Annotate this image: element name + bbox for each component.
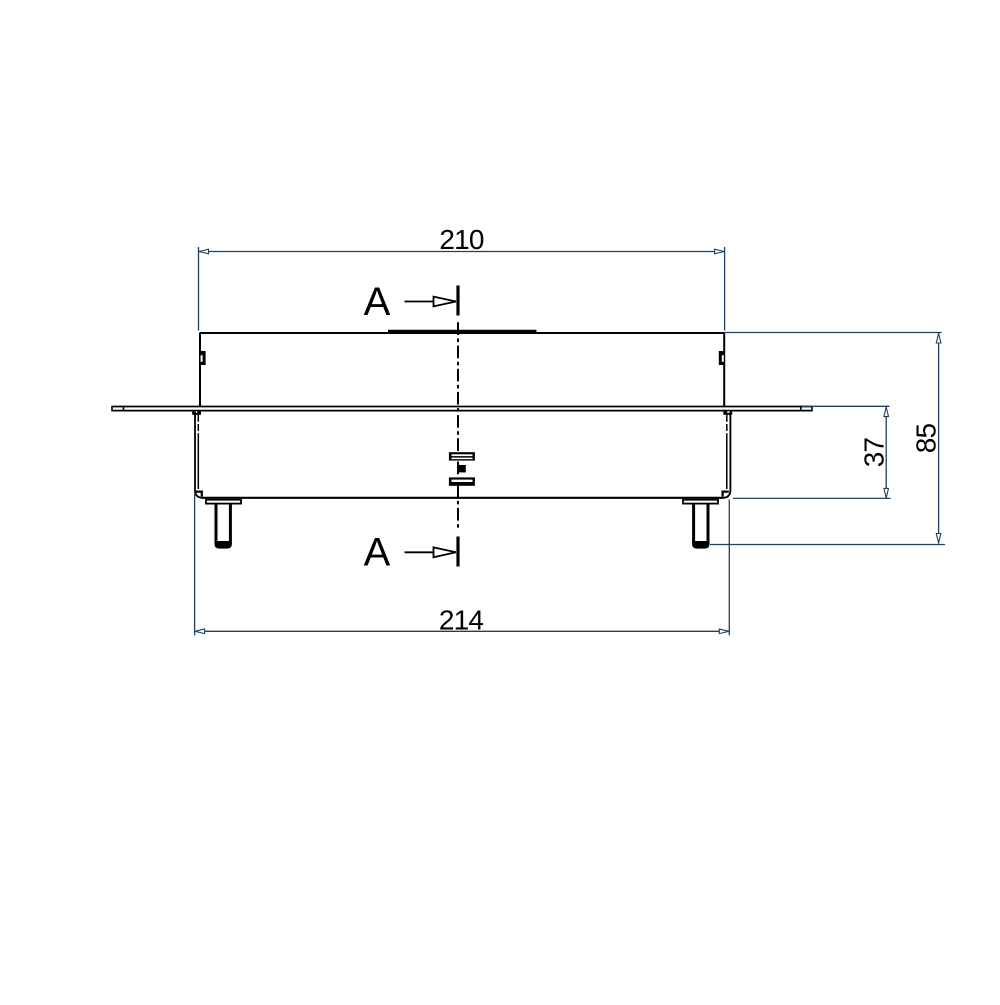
centre clip upper [449,452,475,460]
right leg plate [683,500,718,504]
box top edge [200,332,725,334]
dimension 85 [710,333,945,545]
dimension 37 [733,406,891,498]
right flange hook [723,411,732,415]
left upper wall [199,333,201,407]
left lower wall outer [195,412,203,498]
flange bottom line [112,410,812,412]
left flange hook [192,411,201,415]
left lower wall inner [197,437,199,489]
centre clip lower [449,477,475,485]
left leg plate [206,500,241,504]
right bottom hook [723,492,729,497]
left wall clip [201,351,206,365]
svg-text:37: 37 [859,438,890,468]
right lower wall inner [726,437,728,489]
svg-text:A: A [364,280,391,324]
svg-text:214: 214 [439,605,484,636]
box bottom edge [202,497,723,499]
section arrow top [405,297,457,307]
flange top line [112,406,812,408]
lid seam thick segment [388,330,537,333]
left bottom hook [196,492,202,497]
left lower wall inner dashed [197,415,199,437]
flange left end cap [112,406,124,412]
svg-text:A: A [364,531,391,575]
svg-text:85: 85 [911,424,942,454]
dimension 210 [199,224,725,331]
centre block [458,465,466,472]
section bar top [456,286,459,316]
section label A top [364,280,391,324]
right lower wall inner dashed [726,415,728,437]
section bar bottom [456,537,459,567]
dimension 214 [195,494,730,636]
right upper wall [723,333,725,407]
flange right end cap [801,406,812,412]
section label A bottom [364,531,391,575]
svg-text:210: 210 [439,224,484,255]
section arrow bottom [405,547,457,557]
right wall clip [719,351,724,365]
left leg [215,504,232,549]
right leg [692,504,709,549]
right lower wall outer [723,412,731,498]
centre line [457,322,459,531]
